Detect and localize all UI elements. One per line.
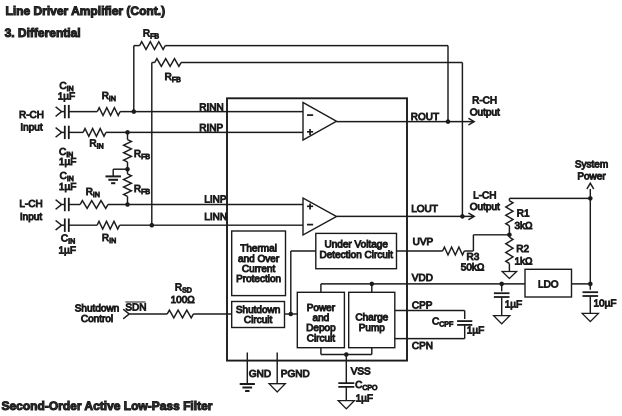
svg-text:System: System — [575, 159, 608, 170]
svg-text:CCPF: CCPF — [432, 317, 453, 329]
svg-text:RINN: RINN — [199, 102, 223, 113]
svg-text:1µF: 1µF — [356, 394, 373, 405]
svg-text:LOUT: LOUT — [411, 204, 438, 215]
svg-text:Output: Output — [470, 202, 500, 213]
svg-text:R1: R1 — [517, 209, 530, 220]
svg-text:+: + — [307, 201, 313, 213]
svg-text:RFB: RFB — [165, 72, 182, 84]
svg-text:1µF: 1µF — [59, 246, 76, 257]
svg-text:VSS: VSS — [351, 367, 371, 378]
svg-text:RSD: RSD — [175, 282, 192, 294]
svg-text:LDO: LDO — [538, 280, 559, 291]
svg-text:Input: Input — [20, 212, 42, 223]
svg-text:SDN: SDN — [125, 303, 146, 314]
svg-text:R-CH: R-CH — [19, 110, 44, 121]
svg-text:PGND: PGND — [281, 369, 310, 380]
svg-text:Under Voltage: Under Voltage — [325, 240, 389, 251]
svg-text:RFB: RFB — [134, 149, 151, 161]
svg-text:Second-Order Active Low-Pass F: Second-Order Active Low-Pass Filter — [2, 399, 213, 413]
svg-text:Protection: Protection — [236, 274, 281, 285]
svg-text:10µF: 10µF — [594, 299, 617, 310]
svg-text:VDD: VDD — [412, 273, 433, 284]
svg-text:CIN: CIN — [61, 234, 75, 246]
svg-text:Control: Control — [81, 314, 113, 325]
svg-text:Pump: Pump — [359, 323, 386, 334]
svg-text:1µF: 1µF — [58, 92, 75, 103]
svg-text:1µF: 1µF — [59, 182, 76, 193]
svg-text:RIN: RIN — [89, 139, 103, 151]
svg-text:RFB: RFB — [143, 29, 160, 41]
svg-text:RIN: RIN — [86, 187, 100, 199]
svg-text:RINP: RINP — [199, 123, 223, 134]
svg-text:R-CH: R-CH — [472, 95, 497, 106]
svg-text:RFB: RFB — [134, 184, 151, 196]
svg-text:LINN: LINN — [204, 212, 227, 223]
svg-text:3kΩ: 3kΩ — [515, 221, 534, 232]
svg-text:CCPO: CCPO — [355, 380, 378, 392]
svg-text:CPN: CPN — [412, 341, 433, 352]
svg-text:R2: R2 — [516, 244, 529, 255]
svg-text:RIN: RIN — [102, 233, 116, 245]
svg-text:Circuit: Circuit — [244, 315, 273, 326]
svg-text:1µF: 1µF — [467, 325, 484, 336]
svg-text:+: + — [307, 127, 313, 139]
svg-text:−: − — [307, 110, 313, 122]
svg-text:GND: GND — [249, 369, 271, 380]
svg-text:1kΩ: 1kΩ — [515, 257, 534, 268]
svg-text:Line Driver Amplifier (Cont.): Line Driver Amplifier (Cont.) — [6, 4, 166, 18]
svg-text:−: − — [307, 219, 313, 231]
svg-text:Circuit: Circuit — [307, 333, 336, 344]
svg-text:1µF: 1µF — [505, 300, 522, 311]
svg-text:Input: Input — [20, 123, 42, 134]
svg-text:RIN: RIN — [102, 91, 116, 103]
svg-text:L-CH: L-CH — [473, 190, 496, 201]
svg-text:UVP: UVP — [413, 237, 434, 248]
svg-text:LINP: LINP — [204, 194, 227, 205]
svg-text:ROUT: ROUT — [411, 112, 439, 123]
svg-text:100Ω: 100Ω — [171, 295, 196, 306]
svg-text:Power: Power — [577, 171, 606, 182]
svg-text:L-CH: L-CH — [19, 199, 42, 210]
svg-text:1µF: 1µF — [59, 157, 76, 168]
svg-text:3. Differential: 3. Differential — [5, 26, 81, 40]
svg-text:Detection Circuit: Detection Circuit — [320, 250, 394, 261]
svg-text:Output: Output — [470, 107, 500, 118]
svg-text:CPP: CPP — [412, 300, 433, 311]
svg-text:50kΩ: 50kΩ — [461, 262, 485, 273]
